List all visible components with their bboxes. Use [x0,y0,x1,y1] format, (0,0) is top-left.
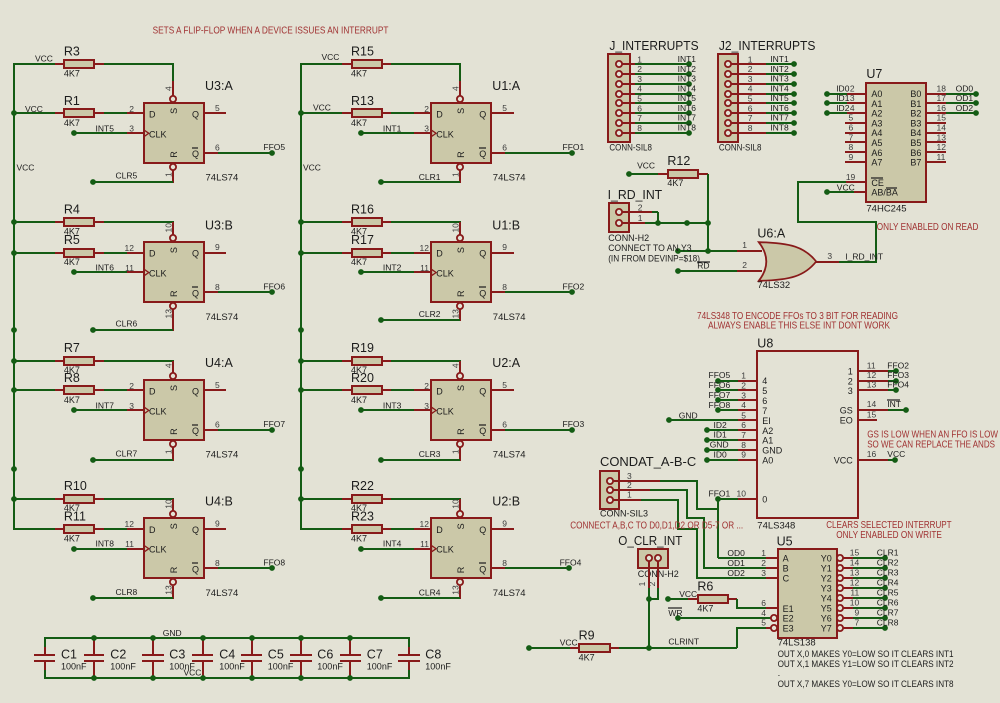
svg-text:WR: WR [668,608,682,618]
J_INTERRUPTS pin 3 / node INT3 [619,83,635,85]
svg-text:8: 8 [741,440,746,450]
svg-text:FFO4: FFO4 [887,380,909,390]
svg-text:1: 1 [627,490,632,500]
capacitor C4 [202,640,204,655]
svg-text:I_RD_INT: I_RD_INT [608,188,663,202]
svg-text:10: 10 [451,499,461,509]
svg-text:R11: R11 [64,509,86,523]
svg-text:ONLY ENABLED ON READ: ONLY ENABLED ON READ [877,222,979,233]
svg-text:74LS138: 74LS138 [778,638,816,649]
node CLR7 [172,447,174,461]
svg-text:A0: A0 [762,455,773,465]
svg-text:R6: R6 [697,580,713,594]
svg-text:6: 6 [741,420,746,430]
svg-text:Y3: Y3 [821,584,832,594]
svg-text:U1:B: U1:B [492,218,520,232]
junction [200,635,206,641]
svg-text:3: 3 [848,386,853,396]
capacitor C3 [152,640,154,655]
svg-text:4K7: 4K7 [697,604,713,614]
svg-text:FFO3: FFO3 [887,370,909,380]
wire [104,112,127,114]
svg-text:14: 14 [850,558,860,568]
resistor R17 [300,252,342,254]
svg-text:R22: R22 [351,479,374,493]
svg-text:S: S [169,523,179,529]
svg-text:1: 1 [748,54,753,64]
svg-text:18: 18 [937,83,947,93]
wire [391,252,414,254]
svg-text:12: 12 [125,243,135,253]
svg-text:5: 5 [741,410,746,420]
wire [204,112,226,114]
svg-text:FFO2: FFO2 [887,360,909,370]
svg-text:74LS74: 74LS74 [206,173,239,184]
svg-text:FFO6: FFO6 [709,380,731,390]
flip-flop U2:B [431,518,491,578]
capacitor C7 [349,640,351,655]
resistor R13 [300,112,342,114]
U5 pin 5 (E3) [771,625,777,631]
wire [204,252,226,254]
svg-text:VCC: VCC [637,160,655,170]
svg-text:U8: U8 [757,337,773,351]
wire [491,112,514,114]
svg-text:INT7: INT7 [96,400,115,410]
svg-text:5: 5 [748,94,753,104]
svg-text:FFO8: FFO8 [263,558,285,568]
svg-text:2: 2 [424,381,429,391]
svg-text:CLK: CLK [149,269,167,279]
U5 pin Y0 / node CLR1 [837,555,843,561]
svg-text:11: 11 [125,539,134,549]
svg-text:15: 15 [867,409,877,419]
svg-text:OD1: OD1 [727,558,745,568]
svg-text:Q: Q [192,149,199,159]
svg-text:CE: CE [871,178,884,188]
wire [491,252,514,254]
svg-text:2: 2 [850,83,855,93]
svg-text:S: S [456,247,466,253]
svg-text:100nF: 100nF [169,661,195,671]
svg-text:3: 3 [761,568,766,578]
svg-text:D: D [149,387,156,397]
resistor R16 [300,221,342,223]
connector J2_INTERRUPTS [718,54,738,142]
svg-text:INT7: INT7 [678,113,697,123]
svg-text:ID0: ID0 [714,449,728,459]
node CLR8 [172,586,174,599]
U8 pin 9 (A0) [738,459,757,461]
svg-text:8: 8 [215,558,220,568]
svg-text:7: 7 [848,132,853,142]
svg-text:SO WE CAN REPLACE THE ANDS: SO WE CAN REPLACE THE ANDS [867,439,995,450]
node INT6 [71,269,77,275]
svg-text:100nF: 100nF [219,661,245,671]
svg-text:13: 13 [163,309,173,319]
J_INTERRUPTS pin 4 / node INT4 [619,93,635,95]
junction [91,635,97,641]
svg-text:4: 4 [748,84,753,94]
svg-text:9: 9 [741,450,746,460]
svg-text:R: R [169,566,179,573]
svg-text:2: 2 [748,64,753,74]
svg-text:CONN-SIL3: CONN-SIL3 [600,509,648,519]
svg-text:4K7: 4K7 [64,395,80,405]
svg-text:R: R [456,290,466,297]
wire [391,498,461,500]
svg-text:74LS74: 74LS74 [493,588,526,599]
svg-text:1: 1 [741,371,746,381]
svg-text:13: 13 [163,585,173,595]
svg-text:B4: B4 [910,128,921,138]
svg-text:OD2: OD2 [956,103,974,113]
node FFO5 [204,152,218,154]
svg-text:Q: Q [192,249,199,259]
svg-text:Y5: Y5 [821,603,832,613]
resistor R11 [13,528,55,530]
svg-text:CONDAT_A-B-C: CONDAT_A-B-C [600,455,696,469]
svg-text:INT2: INT2 [770,64,789,74]
U8 pin 2 (5) [738,389,757,391]
resistor R12 [626,171,632,177]
svg-text:Y2: Y2 [821,574,832,584]
svg-text:INT3: INT3 [678,74,697,84]
svg-text:R13: R13 [351,94,374,108]
svg-text:19: 19 [846,172,856,182]
svg-text:3: 3 [741,390,746,400]
svg-text:GND: GND [710,440,729,450]
svg-text:8: 8 [637,123,642,133]
svg-text:10: 10 [163,223,173,233]
svg-text:2: 2 [761,558,766,568]
svg-text:12: 12 [850,578,860,588]
svg-text:5: 5 [637,94,642,104]
node FFO6 [204,291,218,293]
svg-text:74LS74: 74LS74 [206,312,239,323]
U5 pin Y6 / node CLR7 [837,615,843,621]
svg-text:6: 6 [848,123,853,133]
junction [150,635,156,641]
svg-text:A1: A1 [762,436,773,446]
svg-text:4K7: 4K7 [351,533,367,543]
svg-text:6: 6 [502,420,507,430]
svg-text:R9: R9 [579,629,595,643]
svg-text:15: 15 [937,113,947,123]
svg-text:10: 10 [850,597,860,607]
wire [391,528,414,530]
svg-text:S: S [456,523,466,529]
svg-text:1: 1 [637,54,642,64]
wire [491,528,514,530]
svg-text:SETS A FLIP-FLOP WHEN A DEVICE: SETS A FLIP-FLOP WHEN A DEVICE ISSUES AN… [153,25,389,36]
svg-text:B1: B1 [910,99,921,109]
svg-text:INT1: INT1 [770,54,789,64]
wire [104,528,127,530]
svg-text:S: S [169,385,179,391]
svg-text:CLK: CLK [436,129,454,139]
svg-text:S: S [456,385,466,391]
svg-text:A3: A3 [871,118,882,128]
svg-text:.: . [778,668,781,679]
svg-text:CLK: CLK [436,269,454,279]
svg-text:INT7: INT7 [770,113,789,123]
svg-text:1: 1 [742,240,747,250]
svg-text:CLR7: CLR7 [116,449,138,459]
U5 pin Y7 / node CLR8 [837,625,843,631]
svg-text:FFO7: FFO7 [709,390,731,400]
node FFO7 [204,429,218,431]
svg-text:C1: C1 [61,647,77,661]
wire R6 to E1 [737,599,766,608]
svg-text:FFO4: FFO4 [560,558,582,568]
svg-text:Y7: Y7 [821,623,832,633]
svg-text:R: R [169,428,179,435]
svg-text:J_INTERRUPTS: J_INTERRUPTS [609,39,698,53]
junction [347,635,353,641]
svg-text:C6: C6 [317,647,333,661]
svg-text:11: 11 [125,263,134,273]
U8 pin 13 / node FFO4 [858,389,888,391]
svg-text:U2:B: U2:B [492,495,520,509]
svg-text:CONN-SIL8: CONN-SIL8 [719,142,762,152]
U5 pin 3 (C) / node OD2 [766,577,778,579]
svg-text:3: 3 [637,74,642,84]
svg-text:4: 4 [451,86,461,91]
flip-flop U4:B [144,518,204,578]
svg-text:D: D [149,249,156,259]
J2_INTERRUPTS pin 1 / node INT1 [728,63,766,65]
svg-text:8: 8 [848,142,853,152]
svg-text:2: 2 [638,202,643,212]
svg-text:D: D [436,525,443,535]
svg-text:Q: Q [192,426,199,436]
U8 pin 5 (EI) [738,419,757,421]
svg-text:Q: Q [479,565,486,575]
wire [391,221,461,223]
svg-text:U1:A: U1:A [492,79,520,93]
svg-text:6: 6 [502,143,507,153]
U6:A pin 3 / node I_RD_INT [816,261,839,263]
svg-text:AB/BA: AB/BA [871,188,898,198]
resistor R19 [300,360,342,362]
svg-text:A7: A7 [871,158,882,168]
svg-text:2: 2 [129,104,134,114]
svg-text:CLR1: CLR1 [419,172,441,182]
svg-text:7: 7 [637,113,642,123]
svg-text:Q: Q [479,426,486,436]
svg-text:R4: R4 [64,202,80,216]
svg-text:INT1: INT1 [383,123,402,133]
svg-text:A: A [783,554,789,564]
svg-text:8: 8 [502,558,507,568]
wire R12 to OR input [707,174,709,251]
svg-text:9: 9 [502,242,507,252]
svg-text:VCC: VCC [560,638,578,648]
resistor R6 [665,596,671,602]
svg-text:1: 1 [638,213,643,223]
svg-text:4: 4 [451,363,461,368]
svg-text:1: 1 [761,548,766,558]
resistor R23 [300,528,342,530]
svg-text:I_RD_INT: I_RD_INT [845,252,883,262]
svg-text:GS: GS [840,405,853,415]
svg-text:C5: C5 [268,647,284,661]
U6:A pin 2 / node RD [675,268,681,274]
wire [391,389,414,391]
svg-text:4K7: 4K7 [351,257,367,267]
svg-text:CLK: CLK [149,129,167,139]
svg-text:7: 7 [748,113,753,123]
svg-text:5: 5 [215,380,220,390]
svg-text:74LS74: 74LS74 [493,450,526,461]
svg-text:R: R [456,151,466,158]
svg-text:16: 16 [937,103,947,113]
resistor R5 [13,252,55,254]
svg-text:3: 3 [424,401,429,411]
svg-text:11: 11 [420,263,429,273]
flip-flop U4:A [144,380,204,440]
capacitor C6 [300,640,302,655]
svg-text:CLR1: CLR1 [877,548,899,558]
svg-text:Q: Q [192,387,199,397]
svg-text:100nF: 100nF [425,661,451,671]
svg-text:A2: A2 [871,109,882,119]
svg-text:74LS74: 74LS74 [206,588,239,599]
svg-text:10: 10 [451,223,461,233]
svg-text:4: 4 [761,608,766,618]
svg-text:2: 2 [848,376,853,386]
svg-text:74LS74: 74LS74 [206,450,239,461]
svg-text:INT6: INT6 [96,263,115,273]
svg-text:INT3: INT3 [770,74,789,84]
U8 pin 6 (A2) [738,429,757,431]
U8 pin 16 / node VCC [858,459,888,461]
svg-text:R17: R17 [351,233,374,247]
svg-text:4K7: 4K7 [64,533,80,543]
svg-text:Q: Q [192,525,199,535]
connector O_CLR_INT CONN-H2 [638,549,668,568]
U7 pin CE [846,181,866,183]
node INT7 [71,407,77,413]
svg-text:R1: R1 [64,94,80,108]
U5 pin 2 (B) / node OD1 [766,567,778,569]
svg-text:3: 3 [129,124,134,134]
CONDAT pin 2 wire [610,489,650,491]
svg-text:3: 3 [129,401,134,411]
svg-text:D: D [436,387,443,397]
U5 pin Y1 / node CLR2 [837,565,843,571]
node INT4 [358,546,364,552]
svg-text:ID0: ID0 [836,83,850,93]
svg-text:17: 17 [937,93,947,103]
svg-text:100nF: 100nF [317,661,343,671]
svg-text:ONLY ENABLED ON WRITE: ONLY ENABLED ON WRITE [836,530,942,541]
node FFO4 [491,567,505,569]
svg-text:12: 12 [937,142,947,152]
svg-text:B: B [783,564,789,574]
svg-text:R12: R12 [667,154,690,168]
svg-text:12: 12 [420,519,430,529]
svg-text:B2: B2 [910,109,921,119]
svg-text:E3: E3 [783,623,794,633]
svg-text:10: 10 [737,489,747,499]
svg-text:CLR7: CLR7 [877,607,899,617]
svg-text:2: 2 [742,260,747,270]
svg-text:16: 16 [867,449,877,459]
svg-text:2: 2 [129,381,134,391]
J_INTERRUPTS pin 6 / node INT6 [619,112,635,114]
svg-text:13: 13 [867,380,877,390]
resistor R15 [300,63,342,65]
connector J_INTERRUPTS [608,54,630,142]
svg-text:Q: Q [479,525,486,535]
U8 pin 1 (4) [738,380,757,382]
svg-text:13: 13 [937,132,947,142]
svg-text:FFO1: FFO1 [563,142,585,152]
svg-text:4K7: 4K7 [351,395,367,405]
J_INTERRUPTS pin 7 / node INT7 [619,122,635,124]
IC U8 74LS348 [757,351,858,518]
svg-text:S: S [169,108,179,114]
svg-text:FFO8: FFO8 [709,400,731,410]
resistor R9 [526,645,532,651]
svg-text:3: 3 [424,124,429,134]
node CLR4 [459,586,461,599]
wire [391,63,461,65]
svg-text:Q: Q [479,109,486,119]
VCC rail bottom [45,677,409,679]
wire [491,389,514,391]
J2_INTERRUPTS pin 4 / node INT4 [728,93,766,95]
svg-text:VCC: VCC [313,102,331,112]
svg-text:11: 11 [850,588,859,598]
svg-text:VCC: VCC [17,163,35,173]
svg-text:VCC: VCC [322,52,340,62]
svg-text:U4:A: U4:A [205,356,233,370]
svg-text:7: 7 [762,406,767,416]
svg-text:B7: B7 [910,158,921,168]
svg-text:FFO3: FFO3 [563,419,585,429]
svg-text:CLR8: CLR8 [877,617,899,627]
svg-text:D: D [149,109,156,119]
svg-text:Y1: Y1 [821,564,832,574]
svg-text:5: 5 [761,618,766,628]
svg-text:(IN FROM DEVINP=$18): (IN FROM DEVINP=$18) [608,253,700,263]
U8 pin 15 EO [858,419,877,421]
svg-text:R23: R23 [351,509,374,523]
node CLR1 [459,170,461,183]
resistor R3 [13,63,55,65]
svg-text:4: 4 [762,376,767,386]
svg-text:8: 8 [215,282,220,292]
I_RD_INT pin 2 [619,211,652,213]
resistor R8 [13,389,55,391]
svg-text:OD0: OD0 [727,548,745,558]
svg-text:11: 11 [420,539,429,549]
svg-text:R7: R7 [64,341,80,355]
svg-text:D: D [149,525,156,535]
svg-text:4K7: 4K7 [667,178,683,188]
svg-text:12: 12 [420,243,430,253]
svg-text:0: 0 [762,494,767,504]
svg-text:INT5: INT5 [678,93,697,103]
svg-text:Q: Q [192,565,199,575]
svg-text:CONN-SIL8: CONN-SIL8 [609,142,652,152]
svg-text:B6: B6 [910,148,921,158]
svg-text:4K7: 4K7 [351,118,367,128]
svg-text:C8: C8 [425,647,441,661]
